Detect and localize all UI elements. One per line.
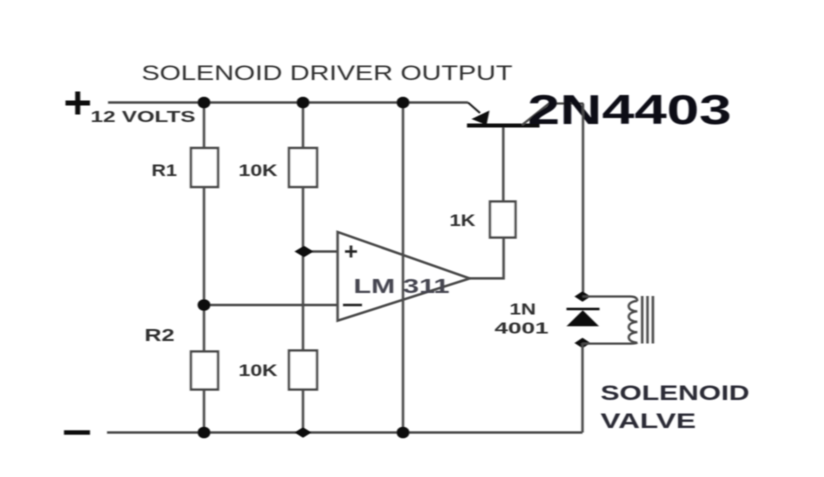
op-amp U1 LM311 comparator (338, 232, 470, 321)
junction: + input / divider (295, 246, 314, 257)
wire: ground bottom rail (107, 431, 583, 434)
junction: top rail / 10K branch (297, 97, 310, 109)
wire: 1K to Q1 base (502, 126, 505, 202)
junction: − input / R1-R2 divider (198, 299, 211, 311)
wire: +12V top rail (108, 101, 468, 104)
wire: solenoid to ground rail (581, 343, 584, 433)
svg-text:2N4403: 2N4403 (528, 86, 732, 133)
pin: + (non-inverting input) (345, 246, 357, 258)
wire: R1/R2 divider branch (left vertical) (203, 103, 206, 433)
wire: solenoid bottom lead (583, 343, 638, 344)
junction: bottom rail / R2 (198, 427, 211, 439)
terminal: − (ground) (64, 430, 90, 435)
svg-text:12 VOLTS: 12 VOLTS (91, 109, 196, 126)
transistor Q1 2N4403 (PNP) (467, 103, 584, 126)
wire: 10K/10K divider branch (middle vertical) (302, 103, 305, 433)
svg-text:SOLENOID: SOLENOID (601, 382, 750, 405)
svg-text:SOLENOID DRIVER OUTPUT: SOLENOID DRIVER OUTPUT (142, 61, 513, 85)
svg-text:1K: 1K (450, 212, 476, 230)
resistor 10K (lower) (289, 351, 317, 390)
pin: collector lead (522, 104, 584, 126)
wire: supply branch through LM311 (third vertical) (402, 103, 405, 433)
pin: − (inverting input) (343, 304, 362, 307)
body: anode triangle (567, 310, 600, 326)
junction: diode / solenoid bottom (575, 338, 591, 348)
svg-text:R2: R2 (145, 325, 175, 345)
wire: LM311 output to 1K resistor (470, 238, 504, 279)
resistor R1 (191, 148, 218, 187)
body: coil windings (629, 301, 638, 343)
solenoid coil L1 (583, 296, 653, 344)
wire: non-inverting input from divider (304, 250, 338, 253)
resistor 1K (490, 202, 516, 238)
pin: cathode bar (567, 308, 600, 311)
svg-text:4001: 4001 (495, 321, 550, 338)
pin: base bar (467, 124, 540, 128)
svg-text:LM 311: LM 311 (354, 276, 450, 298)
pin: emitter lead from +12V rail with arrow (468, 103, 480, 114)
svg-text:10K: 10K (239, 162, 278, 180)
junction: collector / diode / solenoid top (575, 291, 591, 301)
diode D1 1N4001 (flyback) (567, 309, 600, 326)
junction: bottom rail / 10K (295, 427, 312, 437)
svg-text:VALVE: VALVE (601, 410, 697, 433)
resistor R2 (191, 352, 218, 390)
wire: inverting input from R1/R2 divider (204, 304, 338, 307)
svg-text:R1: R1 (152, 162, 178, 180)
junction: top rail / third branch (397, 97, 410, 109)
body: core lines (642, 296, 653, 344)
resistor 10K (upper) (289, 148, 317, 187)
svg-text:10K: 10K (239, 362, 278, 380)
junction: bottom rail / third branch (397, 427, 410, 439)
wire: collector down to solenoid (582, 104, 585, 297)
junction: top rail / R1 branch (198, 97, 211, 109)
terminal: + (12 V supply) (66, 92, 91, 115)
wire: solenoid top lead (583, 297, 638, 302)
svg-text:1N: 1N (510, 302, 537, 319)
